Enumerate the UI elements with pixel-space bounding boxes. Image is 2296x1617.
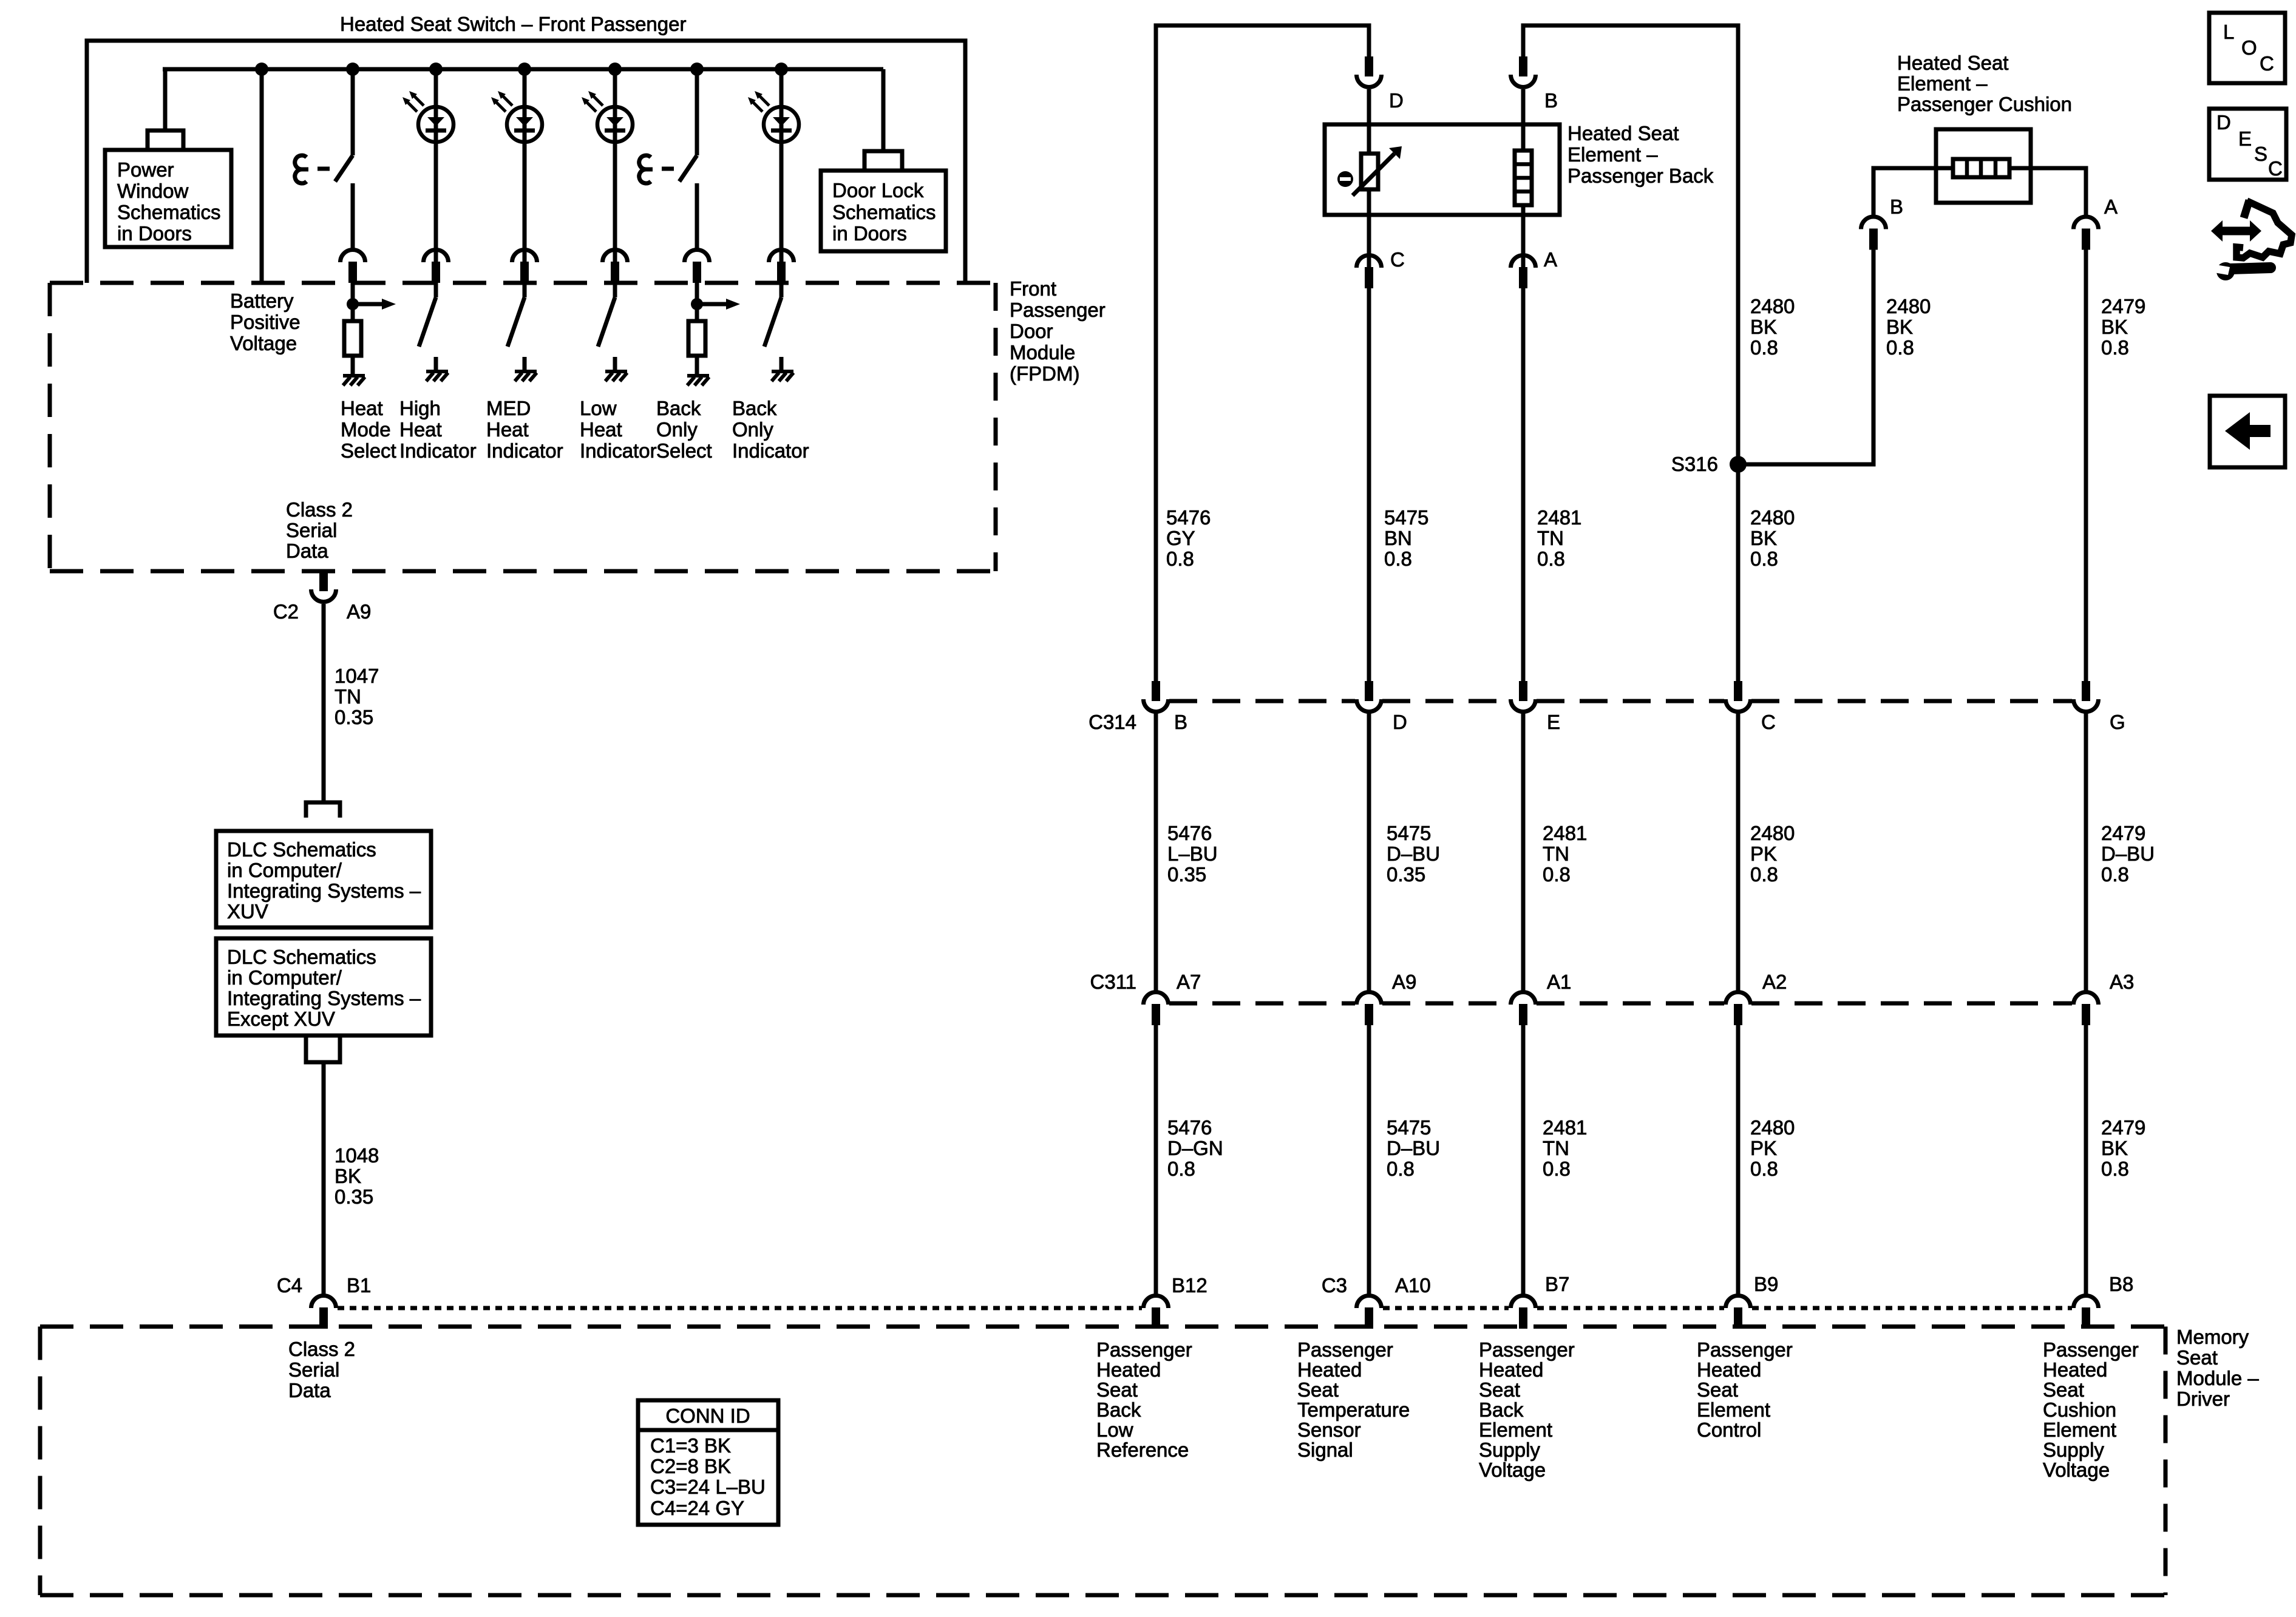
svg-text:Signal: Signal <box>1297 1439 1353 1461</box>
svg-text:C: C <box>1390 248 1405 271</box>
svg-text:0.8: 0.8 <box>1543 1158 1571 1180</box>
resistor R1 <box>344 321 361 356</box>
svg-text:Heat: Heat <box>341 397 383 419</box>
connector B cushion <box>1861 217 1886 249</box>
svg-text:Heat: Heat <box>580 418 622 441</box>
lead bracket DLC top <box>306 802 340 818</box>
wire 1047 <box>322 604 326 801</box>
svg-text:2479: 2479 <box>2101 1116 2145 1139</box>
wire <box>351 356 355 375</box>
svg-text:TN: TN <box>1543 1137 1569 1159</box>
wire 2480 C314 to C311 <box>1736 713 1741 992</box>
svg-text:Low: Low <box>580 397 617 419</box>
switch blade S1 <box>335 155 353 181</box>
connector C4/B1 <box>311 1296 336 1329</box>
bus wire <box>163 67 883 72</box>
LED low heat <box>582 91 633 142</box>
connector MSM pin B7 <box>1511 1296 1536 1329</box>
svg-text:Heated Seat: Heated Seat <box>1567 122 1679 144</box>
svg-text:1047: 1047 <box>335 665 379 687</box>
ground <box>343 376 365 385</box>
svg-text:PK: PK <box>1750 1137 1777 1159</box>
svg-text:C1=3 BK: C1=3 BK <box>650 1434 731 1457</box>
connector C314 pin C <box>1726 681 1751 712</box>
svg-text:2480: 2480 <box>1750 506 1795 529</box>
svg-text:0.35: 0.35 <box>335 706 373 728</box>
svg-text:B8: B8 <box>2109 1273 2133 1295</box>
svg-text:High: High <box>399 397 441 419</box>
svg-text:TN: TN <box>1537 527 1564 549</box>
wire to C <box>1367 189 1371 268</box>
LED back only <box>748 91 799 142</box>
svg-text:2479: 2479 <box>2101 295 2145 317</box>
switch blade MED heat <box>508 297 525 347</box>
svg-text:Class 2: Class 2 <box>288 1338 355 1360</box>
svg-text:0.8: 0.8 <box>1543 863 1571 886</box>
wire stub <box>613 357 617 371</box>
LED high heat <box>402 91 453 142</box>
svg-text:5475: 5475 <box>1387 1116 1431 1139</box>
wire 2479 C314 to C311 <box>2084 713 2088 992</box>
tap arrow <box>691 298 740 310</box>
connector pin low heat <box>603 250 628 283</box>
wire 2480 from cushion B down to S316 <box>1738 249 1873 464</box>
connector C314 pin E <box>1511 681 1536 712</box>
svg-text:Module: Module <box>1010 341 1075 364</box>
svg-text:Heated Seat: Heated Seat <box>1897 52 2008 74</box>
svg-text:Front: Front <box>1010 277 1056 300</box>
wire <box>613 283 617 297</box>
svg-text:Seat: Seat <box>1096 1378 1138 1401</box>
svg-text:Seat: Seat <box>1297 1378 1339 1401</box>
svg-text:5476: 5476 <box>1167 1116 1212 1139</box>
wire 2480 C311 to B9 <box>1736 1025 1741 1295</box>
heated seat switch box outline <box>87 41 965 283</box>
svg-text:A3: A3 <box>2110 971 2134 993</box>
svg-text:Reference: Reference <box>1096 1439 1189 1461</box>
svg-text:BK: BK <box>1750 316 1777 338</box>
svg-text:0.35: 0.35 <box>335 1185 373 1208</box>
svg-text:BN: BN <box>1384 527 1412 549</box>
wire top runs to heated seat element back <box>1156 25 1369 681</box>
svg-text:0.8: 0.8 <box>1384 547 1412 570</box>
svg-text:GY: GY <box>1166 527 1195 549</box>
svg-text:L: L <box>2223 21 2234 43</box>
svg-text:Supply: Supply <box>2043 1439 2104 1461</box>
svg-text:Class 2: Class 2 <box>286 498 353 521</box>
svg-text:2479: 2479 <box>2101 822 2145 844</box>
switch blade back only indicator <box>764 297 781 347</box>
wire 2479 cushion A down to C314 <box>2084 249 2088 681</box>
svg-text:Voltage: Voltage <box>2043 1459 2110 1481</box>
svg-text:Heated: Heated <box>1096 1358 1161 1381</box>
svg-text:Heat: Heat <box>399 418 442 441</box>
svg-text:2480: 2480 <box>1750 295 1795 317</box>
svg-text:C: C <box>1761 711 1776 733</box>
svg-text:Element: Element <box>1479 1419 1552 1441</box>
svg-text:Integrating Systems –: Integrating Systems – <box>227 880 421 902</box>
svg-text:D–BU: D–BU <box>2101 842 2155 865</box>
car pointer icon <box>2211 200 2292 280</box>
wire stub <box>779 357 784 371</box>
CONN ID table <box>638 1400 778 1525</box>
detent link dash <box>662 167 674 171</box>
svg-text:0.8: 0.8 <box>1166 547 1194 570</box>
connector C314 pin D <box>1357 681 1382 712</box>
ground <box>605 371 627 381</box>
wire <box>523 283 527 297</box>
svg-text:C3=24 L–BU: C3=24 L–BU <box>650 1476 766 1498</box>
DLC box 2 <box>216 938 431 1036</box>
svg-text:Element –: Element – <box>1897 72 1988 95</box>
svg-text:0.8: 0.8 <box>2101 863 2129 886</box>
svg-text:A: A <box>1544 248 1557 271</box>
LOC icon <box>2209 13 2285 83</box>
svg-text:Back: Back <box>732 397 777 419</box>
svg-text:B: B <box>1890 195 1903 218</box>
svg-text:Seat: Seat <box>1479 1378 1520 1401</box>
svg-text:BK: BK <box>1886 316 1913 338</box>
svg-text:S316: S316 <box>1671 453 1718 475</box>
ground <box>687 376 709 385</box>
label B9 passenger heated seat element control <box>1697 1338 1793 1441</box>
svg-text:XUV: XUV <box>227 900 268 923</box>
svg-text:Only: Only <box>732 418 773 441</box>
resistor R2 <box>688 321 705 356</box>
svg-text:Schematics: Schematics <box>117 201 221 223</box>
svg-text:Passenger Back: Passenger Back <box>1567 164 1714 187</box>
svg-text:Heated: Heated <box>1479 1358 1543 1381</box>
svg-text:D–GN: D–GN <box>1167 1137 1223 1159</box>
svg-text:Passenger: Passenger <box>1479 1338 1575 1361</box>
connector C311 pin A3 <box>2074 992 2099 1025</box>
ground <box>772 371 793 381</box>
wire 5475 C311 to A10 <box>1367 1025 1371 1295</box>
label B12 passenger heated seat back low reference <box>1096 1338 1192 1461</box>
svg-text:in Doors: in Doors <box>117 222 192 245</box>
svg-text:A2: A2 <box>1762 971 1787 993</box>
connector C <box>1357 256 1382 288</box>
wire <box>695 356 699 375</box>
heater element E2 <box>1953 159 2009 177</box>
svg-text:Passenger: Passenger <box>1010 299 1106 321</box>
svg-text:0.8: 0.8 <box>2101 336 2129 359</box>
svg-text:D: D <box>1389 89 1404 112</box>
svg-text:C314: C314 <box>1089 711 1136 733</box>
svg-text:Back: Back <box>1479 1398 1524 1421</box>
connector pin MED heat <box>512 250 537 283</box>
wire B side <box>1873 168 1953 217</box>
svg-text:Heated: Heated <box>1697 1358 1761 1381</box>
svg-text:A9: A9 <box>1392 971 1416 993</box>
svg-text:5476: 5476 <box>1166 506 1211 529</box>
svg-text:0.35: 0.35 <box>1387 863 1425 886</box>
svg-text:Door: Door <box>1010 320 1053 342</box>
door lock box DL1 <box>821 171 946 251</box>
svg-text:Indicator: Indicator <box>486 439 563 462</box>
DLC box 1 <box>216 831 431 927</box>
svg-text:Serial: Serial <box>286 519 337 541</box>
svg-text:0.8: 0.8 <box>1750 1158 1778 1180</box>
wire battery positive voltage <box>260 69 264 283</box>
svg-text:Schematics: Schematics <box>832 201 936 223</box>
ground <box>515 371 537 381</box>
svg-text:B: B <box>1174 711 1187 733</box>
ground <box>426 371 448 381</box>
wire 1048 <box>322 1062 326 1295</box>
wire 5475 C314 to C311 <box>1367 713 1371 992</box>
wire 5476 C314 to C311 <box>1154 713 1158 992</box>
svg-text:Seat: Seat <box>2043 1378 2084 1401</box>
switch blade low heat <box>598 297 615 347</box>
svg-text:B9: B9 <box>1754 1273 1778 1295</box>
power window box PW1 <box>105 150 231 247</box>
svg-text:Heated: Heated <box>1297 1358 1362 1381</box>
svg-text:in Computer/: in Computer/ <box>227 966 342 989</box>
svg-text:Module –: Module – <box>2176 1367 2259 1389</box>
wire <box>351 283 355 321</box>
node heat mode select <box>346 63 359 76</box>
svg-text:A: A <box>2104 195 2118 218</box>
wire <box>351 69 355 155</box>
svg-text:2481: 2481 <box>1543 1116 1587 1139</box>
svg-text:E: E <box>1547 711 1560 733</box>
cushion box <box>1936 129 2031 203</box>
svg-text:0.8: 0.8 <box>1387 1158 1415 1180</box>
svg-text:C311: C311 <box>1090 971 1136 993</box>
svg-text:B1: B1 <box>347 1274 371 1297</box>
label B8 passenger heated seat cushion element supply voltage <box>2043 1338 2139 1481</box>
svg-text:PK: PK <box>1750 842 1777 865</box>
svg-text:TN: TN <box>335 685 361 708</box>
wire <box>779 283 784 297</box>
connector A cushion <box>2074 217 2099 249</box>
svg-text:in Computer/: in Computer/ <box>227 859 342 881</box>
wire D into box <box>1367 89 1371 154</box>
wire stub <box>434 357 438 371</box>
svg-text:Passenger: Passenger <box>2043 1338 2139 1361</box>
svg-text:Heat: Heat <box>486 418 529 441</box>
svg-text:2480: 2480 <box>1750 822 1795 844</box>
svg-text:DLC Schematics: DLC Schematics <box>227 838 376 861</box>
svg-text:Indicator: Indicator <box>580 439 657 462</box>
svg-text:2480: 2480 <box>1750 1116 1795 1139</box>
svg-text:C4: C4 <box>277 1274 302 1297</box>
svg-text:BK: BK <box>2101 316 2128 338</box>
DESC icon <box>2209 109 2286 180</box>
svg-text:Element: Element <box>1697 1398 1770 1421</box>
svg-text:0.8: 0.8 <box>2101 1158 2129 1180</box>
svg-text:Heated: Heated <box>2043 1358 2107 1381</box>
connector C311 pin A1 <box>1511 992 1536 1025</box>
connector MSM pin A10 <box>1357 1296 1382 1329</box>
svg-text:E: E <box>2238 127 2252 150</box>
wire 2481 C314 to C311 <box>1521 713 1526 992</box>
wire <box>695 183 699 249</box>
svg-text:Control: Control <box>1697 1419 1761 1441</box>
svg-text:Voltage: Voltage <box>230 332 297 354</box>
svg-text:5476: 5476 <box>1167 822 1212 844</box>
svg-text:Element –: Element – <box>1567 143 1658 166</box>
svg-text:Except XUV: Except XUV <box>227 1008 335 1030</box>
connector MSM pin B9 <box>1726 1296 1751 1329</box>
connector pin back only select <box>685 250 710 283</box>
svg-text:Heated Seat Switch – Front Pas: Heated Seat Switch – Front Passenger <box>340 13 686 35</box>
svg-text:Window: Window <box>117 180 189 202</box>
svg-text:BK: BK <box>2101 1137 2128 1159</box>
lead bracket DLC bottom <box>306 1036 340 1062</box>
connector C311 pin A9 <box>1357 992 1382 1025</box>
wire <box>695 283 699 321</box>
C311 connector row dashed line <box>1169 1002 1355 1006</box>
svg-text:B7: B7 <box>1545 1273 1569 1295</box>
svg-text:Seat: Seat <box>1697 1378 1738 1401</box>
svg-text:Only: Only <box>656 418 698 441</box>
svg-text:Passenger: Passenger <box>1297 1338 1393 1361</box>
svg-text:Cushion: Cushion <box>2043 1398 2116 1421</box>
svg-text:Select: Select <box>341 439 396 462</box>
svg-text:O: O <box>2241 36 2257 59</box>
connector pin heat mode select <box>341 250 365 283</box>
svg-text:Data: Data <box>288 1379 331 1402</box>
tap arrow <box>347 298 396 310</box>
back arrow icon <box>2210 396 2285 467</box>
connector D (top) <box>1357 56 1382 87</box>
connector C311 pin A7 <box>1144 992 1169 1025</box>
svg-text:S: S <box>2254 143 2267 165</box>
svg-text:5475: 5475 <box>1387 822 1431 844</box>
svg-text:CONN ID: CONN ID <box>665 1405 750 1427</box>
connector MSM pin B12 <box>1144 1296 1169 1329</box>
svg-text:0.8: 0.8 <box>1537 547 1565 570</box>
svg-text:DLC Schematics: DLC Schematics <box>227 946 376 968</box>
detent <box>639 155 653 183</box>
svg-text:A10: A10 <box>1395 1274 1431 1297</box>
svg-text:Positive: Positive <box>230 311 301 333</box>
svg-text:Passenger: Passenger <box>1697 1338 1793 1361</box>
wire S316 down to C314 <box>1736 464 1741 681</box>
element box <box>1325 124 1560 215</box>
svg-text:Data: Data <box>286 540 328 562</box>
svg-text:Sensor: Sensor <box>1297 1419 1361 1441</box>
svg-text:0.8: 0.8 <box>1750 863 1778 886</box>
wire 2481 C311 to B7 <box>1521 1025 1526 1295</box>
memory seat module connector dotted line <box>338 1306 1142 1310</box>
svg-text:0.35: 0.35 <box>1167 863 1206 886</box>
wire A side <box>2009 168 2086 217</box>
svg-text:C2=8 BK: C2=8 BK <box>650 1455 731 1477</box>
svg-text:BK: BK <box>335 1165 361 1187</box>
svg-text:Supply: Supply <box>1479 1439 1540 1461</box>
label B7 passenger heated seat back element supply voltage <box>1479 1338 1575 1481</box>
wire to door lock bracket <box>881 69 886 149</box>
switch blade high heat <box>419 297 436 347</box>
node S316 <box>1730 456 1747 473</box>
svg-text:1048: 1048 <box>335 1144 379 1167</box>
svg-text:Passenger Cushion: Passenger Cushion <box>1897 93 2072 115</box>
svg-text:Mode: Mode <box>341 418 391 441</box>
lead bracket door lock <box>864 151 902 171</box>
svg-text:Element: Element <box>2043 1419 2116 1441</box>
svg-text:C: C <box>2260 52 2274 75</box>
svg-text:D–BU: D–BU <box>1387 1137 1440 1159</box>
svg-text:0.8: 0.8 <box>1750 336 1778 359</box>
svg-text:D: D <box>1393 711 1407 733</box>
svg-text:Passenger: Passenger <box>1096 1338 1192 1361</box>
svg-text:0.8: 0.8 <box>1750 547 1778 570</box>
svg-text:2481: 2481 <box>1537 506 1581 529</box>
wire <box>351 183 355 249</box>
wires down to C314 <box>1367 288 1371 681</box>
svg-text:Door Lock: Door Lock <box>832 179 924 202</box>
svg-text:D–BU: D–BU <box>1387 842 1440 865</box>
svg-text:A9: A9 <box>347 600 371 623</box>
lead bracket power window <box>148 131 183 150</box>
svg-text:Serial: Serial <box>288 1358 339 1381</box>
svg-text:2480: 2480 <box>1886 295 1931 317</box>
svg-text:L–BU: L–BU <box>1167 842 1218 865</box>
svg-text:0.8: 0.8 <box>1886 336 1914 359</box>
wire stub <box>523 357 527 371</box>
svg-text:Indicator: Indicator <box>399 439 477 462</box>
svg-text:Back: Back <box>1096 1398 1141 1421</box>
memory seat module dashed box <box>40 1324 2165 1329</box>
svg-text:B: B <box>1544 89 1558 112</box>
svg-text:(FPDM): (FPDM) <box>1010 362 1079 385</box>
wire 2479 C311 to B8 <box>2084 1025 2088 1295</box>
connector C311 pin A2 <box>1726 992 1751 1025</box>
svg-text:C4=24 GY: C4=24 GY <box>650 1497 744 1519</box>
node battery junction <box>255 63 268 76</box>
wire B into box / heater element E1 <box>1521 89 1526 151</box>
svg-text:G: G <box>2110 711 2125 733</box>
svg-text:Temperature: Temperature <box>1297 1398 1410 1421</box>
svg-text:Memory: Memory <box>2176 1326 2249 1348</box>
detent <box>295 155 308 183</box>
svg-text:Integrating Systems –: Integrating Systems – <box>227 987 421 1009</box>
svg-text:TN: TN <box>1543 842 1569 865</box>
thermistor RT1 <box>1361 154 1378 189</box>
svg-text:0.8: 0.8 <box>1167 1158 1195 1180</box>
connector A <box>1511 256 1536 288</box>
svg-text:Select: Select <box>656 439 712 462</box>
label A10 passenger heated seat temperature sensor signal <box>1297 1338 1410 1461</box>
LED MED heat <box>491 91 542 142</box>
svg-text:C2: C2 <box>273 600 299 623</box>
svg-text:Battery: Battery <box>230 290 294 312</box>
svg-text:B12: B12 <box>1172 1274 1207 1297</box>
switch blade S2 <box>679 155 697 181</box>
connector pin back only indicator <box>769 250 794 283</box>
connector C314 pin G <box>2074 681 2099 712</box>
svg-text:Seat: Seat <box>2176 1346 2218 1369</box>
svg-text:Indicator: Indicator <box>732 439 809 462</box>
svg-text:A7: A7 <box>1177 971 1201 993</box>
C314 connector row dashed line <box>1169 699 1355 703</box>
detent link dash <box>318 167 330 171</box>
svg-text:5475: 5475 <box>1384 506 1428 529</box>
svg-text:MED: MED <box>486 397 531 419</box>
svg-text:2481: 2481 <box>1543 822 1587 844</box>
svg-text:A1: A1 <box>1547 971 1571 993</box>
svg-text:C3: C3 <box>1322 1274 1347 1297</box>
minus circle <box>1337 171 1353 187</box>
svg-text:Voltage: Voltage <box>1479 1459 1546 1481</box>
connector C2/A9 <box>311 571 336 602</box>
connector B (top) <box>1511 56 1536 87</box>
svg-text:BK: BK <box>1750 527 1777 549</box>
wire <box>434 283 438 297</box>
